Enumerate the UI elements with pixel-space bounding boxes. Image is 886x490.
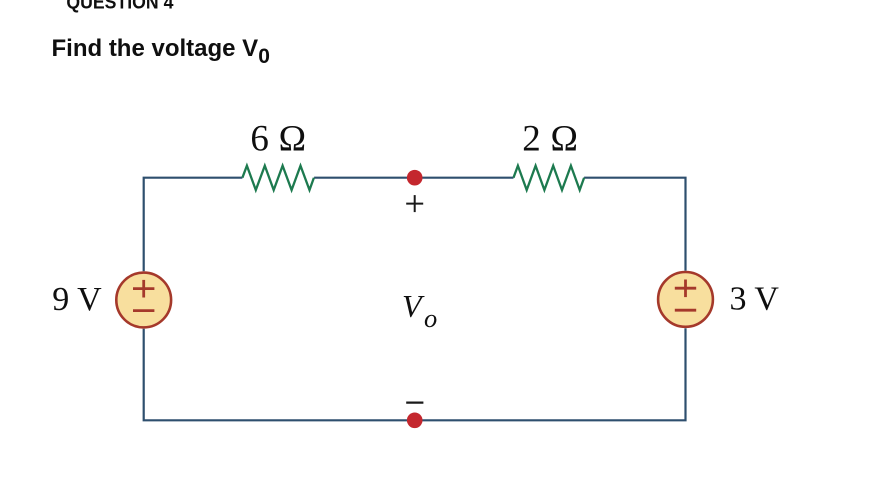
voltage source 9V plus sign xyxy=(133,280,154,298)
voltage source 9V minus sign xyxy=(133,309,154,312)
resistor 2 ohm xyxy=(514,166,585,190)
wire top-left L segment xyxy=(144,178,243,272)
svg-text:6 Ω: 6 Ω xyxy=(250,118,306,159)
voltage source 3V plus sign xyxy=(675,280,696,298)
wire top-middle segment xyxy=(314,177,513,179)
svg-text:Find the voltage V0: Find the voltage V0 xyxy=(52,35,270,68)
polarity minus near bottom node xyxy=(406,402,423,404)
wire bottom U segment xyxy=(144,328,686,420)
voltage source 3V minus sign xyxy=(675,309,696,312)
svg-text:9 V: 9 V xyxy=(52,281,102,318)
voltage source 9V xyxy=(116,273,171,328)
svg-text:2 Ω: 2 Ω xyxy=(522,118,578,159)
svg-text:QUESTION 4: QUESTION 4 xyxy=(66,0,173,13)
svg-text:Vo: Vo xyxy=(402,288,437,333)
resistor 6 ohm xyxy=(242,166,314,190)
node dot bottom xyxy=(407,413,423,429)
svg-text:3 V: 3 V xyxy=(730,280,780,317)
wire top-right L segment xyxy=(584,178,685,271)
polarity plus near top node xyxy=(406,195,423,212)
node dot top xyxy=(407,170,423,186)
voltage source 3V xyxy=(658,272,713,327)
